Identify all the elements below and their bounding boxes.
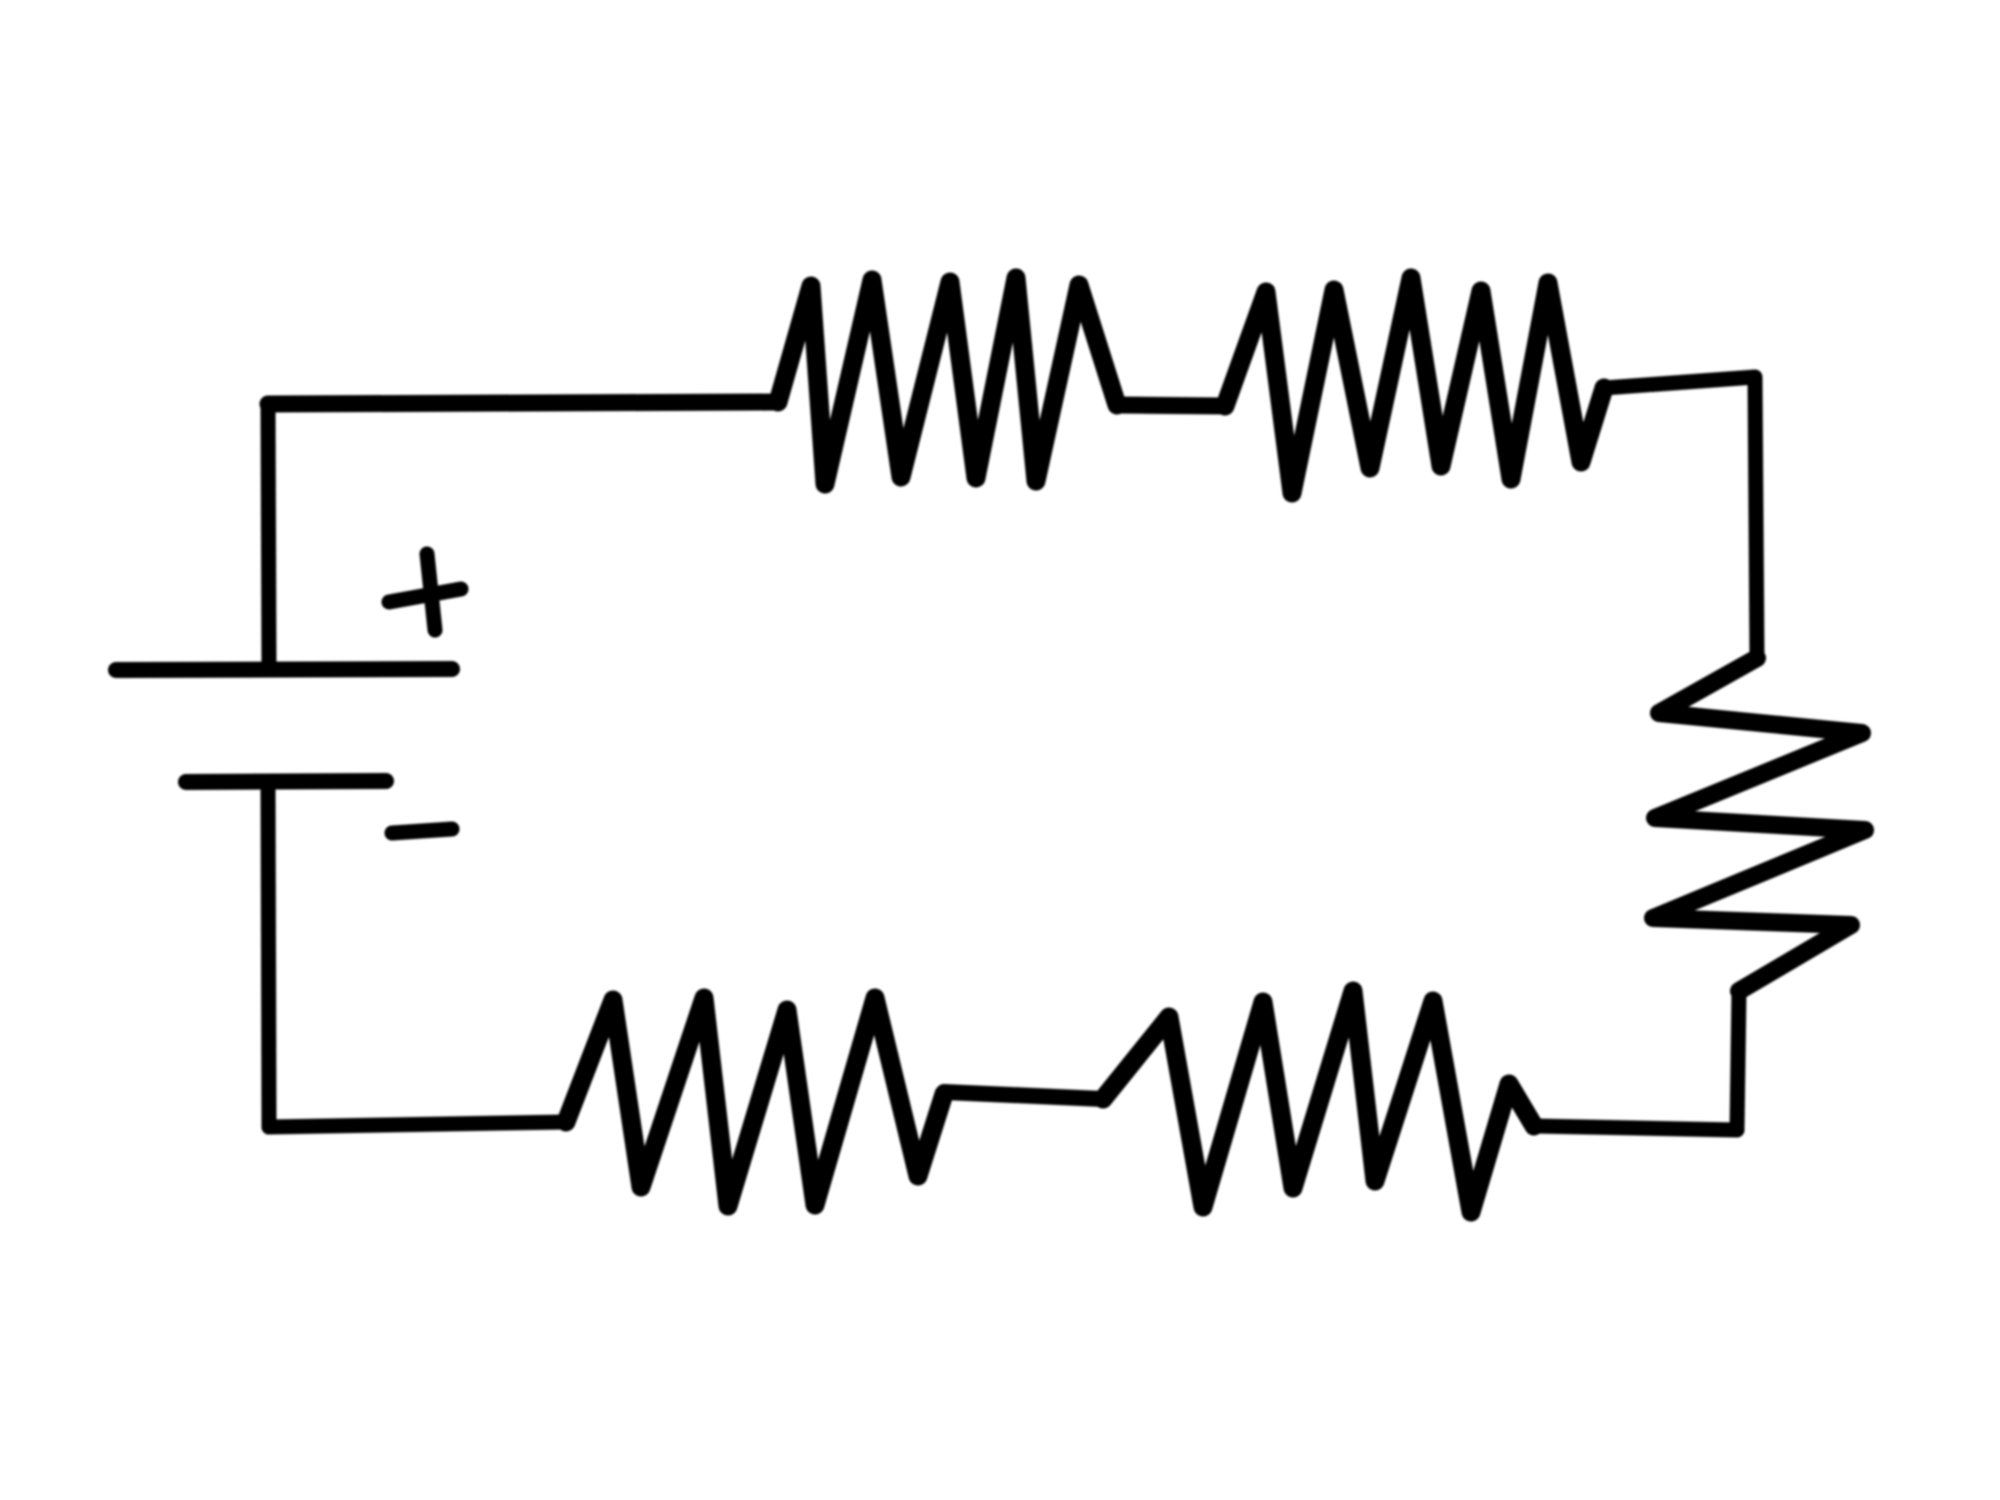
wire from R3 down to bottom-right corner xyxy=(1737,991,1739,1129)
wire from battery positive plate up to top-left corner xyxy=(268,404,269,670)
wire between R4 and R5 xyxy=(944,1092,1103,1099)
minus label xyxy=(392,829,452,833)
resistor R4 (bottom-right zigzag) xyxy=(1103,991,1534,1212)
wire bottom-left horizontal to corner xyxy=(269,1122,566,1127)
battery V1 positive plate (long) xyxy=(116,669,452,670)
resistor R1 (top-left zigzag) xyxy=(778,278,1117,484)
wire between R1 and R2 xyxy=(1117,405,1225,406)
battery V1 negative plate (short) xyxy=(186,781,386,782)
wire top horizontal from corner to R1 xyxy=(268,402,778,404)
plus label horizontal stroke xyxy=(389,589,461,602)
wire bottom-right horizontal xyxy=(1534,1126,1737,1130)
wire left side up to battery negative plate xyxy=(268,784,269,1127)
plus label vertical stroke xyxy=(427,554,435,630)
wire from R2 over top-right corner down right side xyxy=(1604,377,1757,658)
resistor R3 (right side vertical zigzag) xyxy=(1653,658,1865,991)
resistor R5 (bottom-left zigzag) xyxy=(566,998,944,1206)
resistor R2 (top-right zigzag) xyxy=(1225,278,1604,493)
